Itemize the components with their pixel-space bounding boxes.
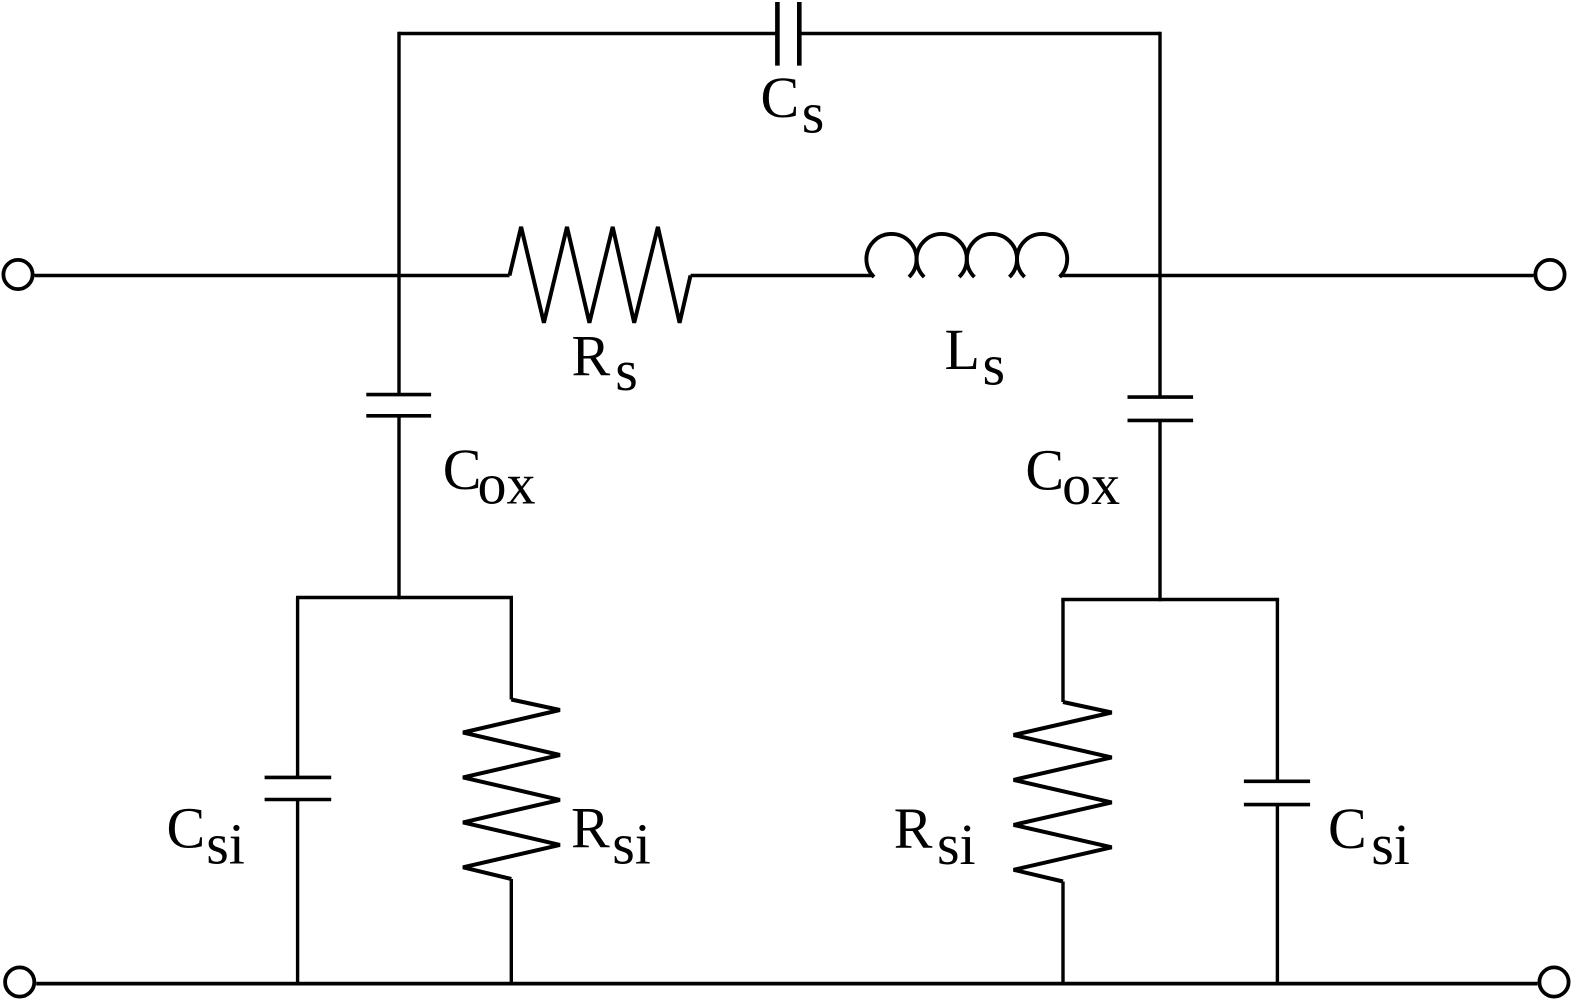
wire left Rsi branch lower [510, 879, 513, 984]
wire right shunt bar [1061, 598, 1279, 601]
wire left Csi branch lower [296, 800, 299, 984]
wire middle from P1 to Rs [34, 274, 509, 277]
wire right Csi branch lower [1276, 805, 1279, 984]
capacitor C_S left plate [775, 2, 780, 66]
capacitor C_OX right top plate [1128, 395, 1194, 399]
capacitor C_OX left top plate [366, 393, 431, 397]
wire left Rsi branch upper [510, 598, 513, 700]
capacitor C_S right plate [797, 2, 802, 66]
wire left rail lower [397, 416, 400, 599]
capacitor C_si right top plate [1244, 779, 1310, 783]
capacitor C_OX left bottom plate [366, 414, 431, 418]
wire left rail upper [397, 32, 400, 395]
capacitor C_si left top plate [265, 776, 332, 780]
wire right Rsi branch lower [1061, 882, 1064, 984]
inductor L_S loop 4 [1017, 234, 1067, 277]
wire left Csi branch upper [296, 598, 299, 778]
wire right Csi branch upper [1276, 600, 1279, 782]
terminal port P3 (bottom-left) [5, 967, 34, 996]
wire middle between Rs and Ls [691, 274, 875, 277]
resistor R_si right zigzag [1014, 702, 1112, 882]
wire right rail upper [1158, 32, 1161, 397]
resistor R_S zigzag [510, 227, 691, 323]
wire top feedback right segment [799, 32, 1160, 35]
wire middle from Ls to P2 [1060, 274, 1534, 277]
terminal port P1 (top-left) [3, 260, 32, 289]
wire right rail lower [1158, 420, 1161, 601]
wire bottom from P3 to P4 [36, 982, 1537, 986]
wire left shunt bar [296, 596, 513, 599]
capacitor C_OX right bottom plate [1128, 419, 1194, 423]
capacitor C_si left bottom plate [265, 798, 332, 802]
wire right Rsi branch upper [1061, 600, 1064, 703]
terminal port P2 (top-right) [1535, 260, 1564, 289]
inductor L_S loop 2 [917, 234, 967, 277]
resistor R_si left zigzag [463, 700, 560, 880]
capacitor C_si right bottom plate [1244, 803, 1310, 807]
wire top feedback left segment [399, 32, 777, 35]
inductor L_S loop 1 [866, 234, 916, 277]
terminal port P4 (bottom-right) [1539, 967, 1568, 996]
inductor L_S loop 3 [967, 234, 1017, 277]
